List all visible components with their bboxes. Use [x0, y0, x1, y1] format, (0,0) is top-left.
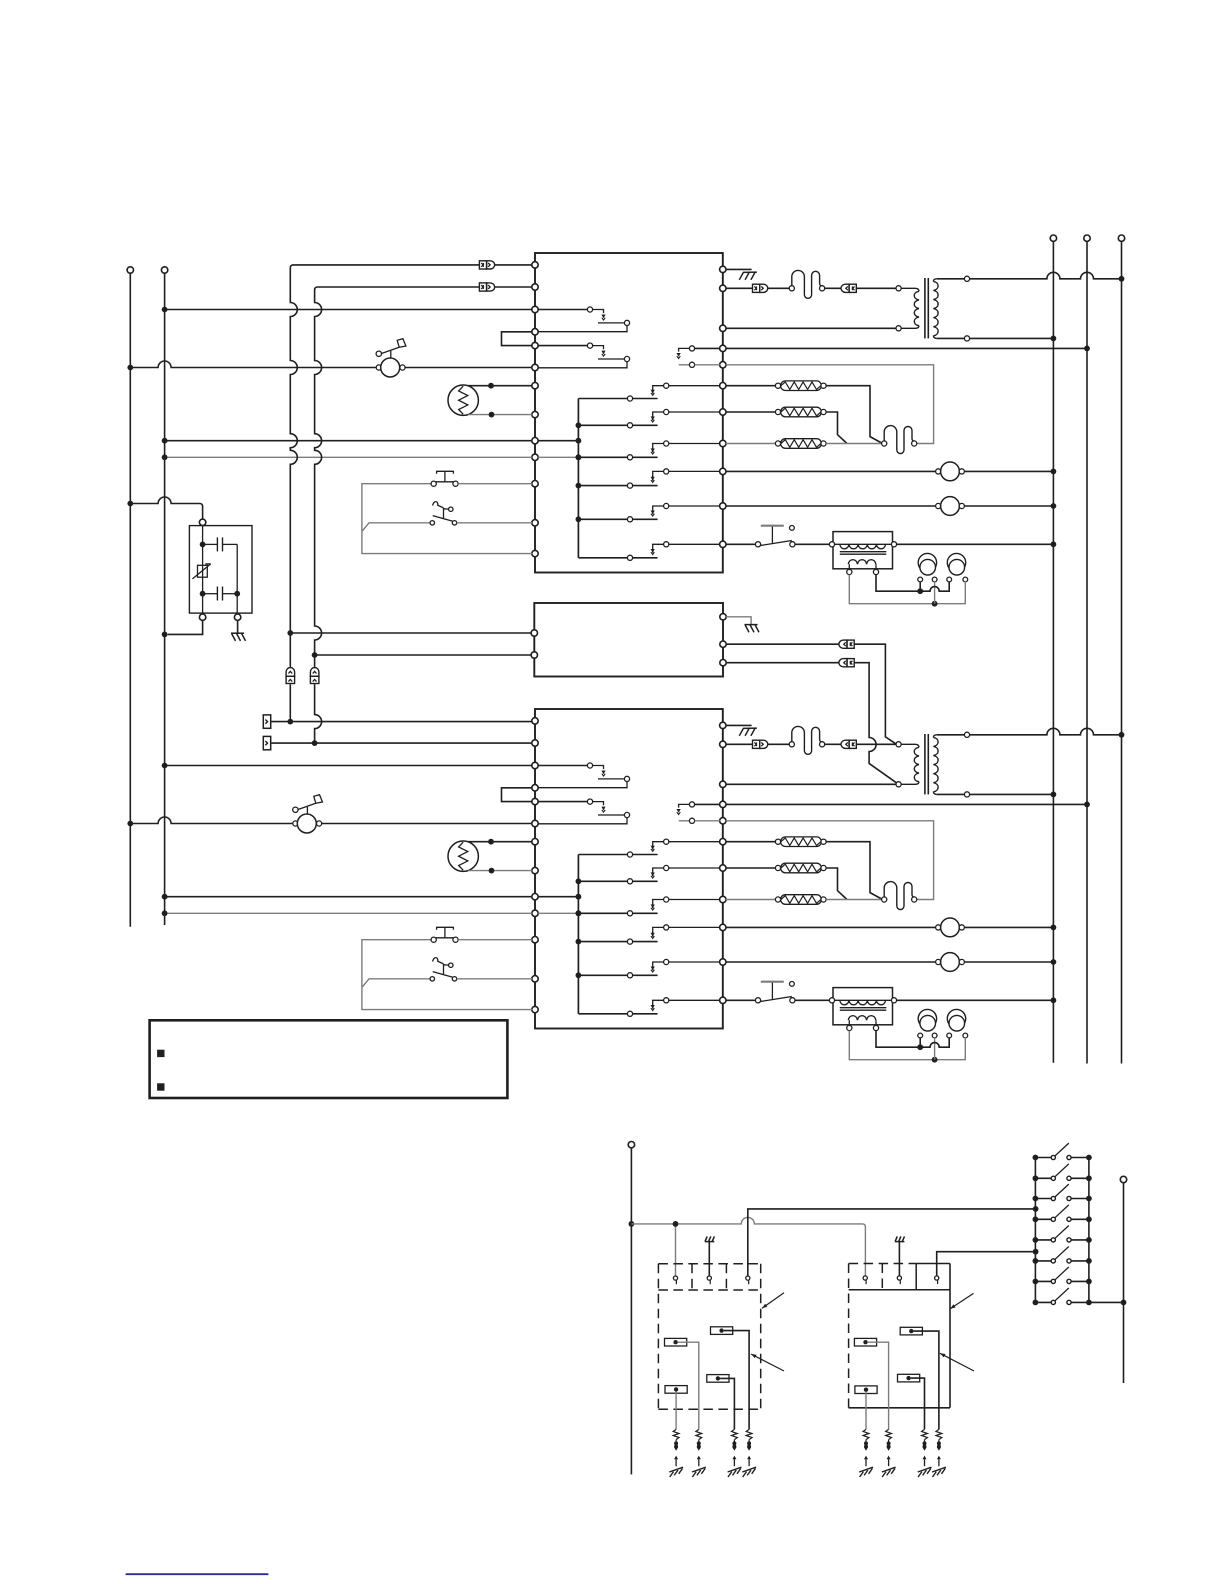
U2 right terminal pin 5: [720, 818, 726, 824]
junction secondary-bottom bus1 (U1): [1051, 336, 1057, 342]
thermistor TH1: [448, 385, 478, 415]
K5 junction on bus (U2): [576, 972, 582, 978]
capacitor C22: [947, 1009, 968, 1038]
DIP switch S6: [1033, 1247, 1092, 1264]
contactor coil box 52C1: [829, 532, 896, 575]
U3 wire to column1: [290, 632, 531, 634]
solenoid coil A-R2: [711, 1327, 733, 1335]
connector CN2 (male): [479, 283, 494, 291]
U2 left terminal pin 2: [532, 740, 538, 746]
heater H11: [726, 381, 826, 391]
fuse F11 right terminal: [820, 286, 825, 291]
junction L1 filter row: [127, 501, 133, 507]
solenoid coil B-C1: [900, 1327, 922, 1335]
filter output terminal: [199, 614, 205, 620]
coil A-R3 lead: [720, 1378, 734, 1429]
U1 cap gray junction: [932, 601, 938, 607]
U1 cap gray net: [849, 575, 965, 604]
relay contact K2 moving arm (U2): [578, 879, 657, 884]
wire to OL protector (U2): [130, 817, 292, 823]
relay contact K4 moving arm (U1): [578, 483, 657, 488]
connector CN2a (male): [753, 740, 768, 748]
pressure switch 63H1: [755, 526, 795, 547]
protection switch to PCB wire (U1): [457, 522, 532, 524]
T1 secondary bottom terminal: [964, 336, 969, 341]
heater row wire to fuse (U2): [826, 899, 882, 901]
fan motor M12: [726, 497, 1054, 516]
valve box A ground stem: [708, 1242, 710, 1276]
bottom right vertical: [1123, 1183, 1125, 1383]
U1 left terminal pin 11: [532, 481, 538, 487]
T2 secondary top wire to bus: [970, 728, 1122, 734]
U2 chassis ground stub: [726, 724, 752, 726]
U2 right terminal pin 3: [720, 781, 726, 787]
gray branch to valve box A: [675, 1224, 677, 1276]
wire CN6 to PCB U2: [272, 742, 533, 744]
solenoid coil A-R4: [665, 1386, 687, 1394]
U1 left terminal pin 8: [532, 411, 538, 417]
capacitor C11: [918, 553, 937, 582]
U1 right terminal pin 4: [720, 345, 726, 351]
U2 bank junction b: [576, 910, 582, 916]
valve A terminal 1: [673, 1276, 677, 1284]
ground symbol G6: [895, 1236, 905, 1241]
U2 bank feed wire a: [538, 896, 578, 898]
wire CN2 to column2: [315, 287, 480, 290]
TH2 top lead junction: [488, 839, 494, 845]
T2 secondary top terminal: [964, 732, 969, 737]
U1 coil-box row wire a: [726, 543, 756, 545]
U2 left terminal pin 12: [532, 976, 538, 982]
TH1 top lead junction: [488, 383, 494, 389]
T2 core: [925, 734, 928, 794]
spark electrode B3: [918, 1429, 932, 1477]
junction L2 row2c: [162, 910, 168, 916]
heater H22 output wire: [826, 868, 847, 900]
valve box B terminal wire (black): [937, 1252, 1036, 1276]
U2 left terminal pin 13: [532, 1006, 538, 1012]
relay contact K1 moving arm (U1): [578, 396, 657, 401]
signal box U3: [534, 603, 723, 677]
valve B terminal 2: [897, 1276, 901, 1284]
footer rule: [126, 1573, 269, 1575]
solenoid coil A-R1: [665, 1338, 687, 1346]
U3 left terminal 1: [531, 630, 537, 636]
bank output wire: [1089, 1301, 1124, 1303]
coil B-C3 lead: [911, 1378, 925, 1429]
U1 fuse-row wire c: [825, 287, 841, 289]
U2 left terminal pin 4: [532, 785, 538, 791]
junction column1 middle-box row: [287, 630, 293, 636]
junction control bus2 (U2): [1084, 802, 1090, 808]
relay contact C pole (U2): [677, 802, 720, 815]
spark electrode A4: [742, 1429, 756, 1477]
wire L2 to PCB pin9 (U2): [165, 896, 532, 898]
relay contact K2 fixed throw (U2): [651, 865, 720, 878]
junction column2 unit2 row: [312, 740, 318, 746]
valve B terminal 3: [935, 1276, 939, 1284]
U2 cap1 left stem: [919, 1038, 921, 1048]
T2 secondary bottom wire to bus: [970, 793, 1054, 795]
wire L2 to PCB pin10 (U1): [165, 456, 532, 458]
U1 bank feed wire a: [538, 440, 578, 442]
junction M11 bus1: [1051, 469, 1057, 475]
solenoid coil B-C3: [898, 1374, 920, 1382]
K2 junction on bus (U1): [576, 422, 582, 428]
note bullet 2: [157, 1083, 164, 1090]
signal column 2 (upper): [315, 290, 322, 667]
switch-group loop wire (U2): [362, 940, 532, 1010]
junction bank feed B: [1033, 1249, 1039, 1255]
protection switch to PCB wire (U2): [457, 978, 532, 980]
heater H12: [726, 407, 826, 417]
U2 wire pin to T2 primary: [726, 783, 896, 785]
heater fuse F22 right terminal: [912, 897, 917, 902]
bus R2: [1086, 241, 1088, 1063]
junction bank feed A: [1033, 1206, 1039, 1212]
connector CN5 (stub): [263, 715, 270, 728]
TH2 bottom lead: [468, 870, 532, 872]
relay contact K1 fixed throw (U1): [651, 383, 720, 395]
U1 chassis ground stub: [726, 268, 752, 270]
controller PCB U2: [535, 709, 723, 1029]
T1 core: [925, 278, 928, 338]
ground symbol G5: [705, 1236, 715, 1241]
valve B terminal 1: [863, 1276, 867, 1284]
protection switch (U1): [430, 502, 457, 525]
U2 left terminal pin 1: [532, 718, 538, 724]
U2 heater-fuse return wire: [726, 821, 934, 900]
switch-group loop wire (U1): [362, 484, 532, 554]
spark electrode B1: [859, 1429, 873, 1477]
coil A-R4 lead: [675, 1391, 677, 1429]
T2 secondary bottom terminal: [964, 792, 969, 797]
U2 fuse-row wire b: [768, 743, 789, 745]
U1 left terminal pin 12: [532, 520, 538, 526]
U1 contact-bank bus column: [577, 399, 579, 558]
relay contact K5 fixed throw (U1): [651, 503, 720, 516]
U2 right terminal pin 7: [720, 865, 726, 871]
relay contact K4 fixed throw (U1): [651, 469, 720, 483]
U1 right terminal pin 9: [720, 468, 726, 474]
U1 cap1 right stem: [934, 582, 936, 604]
U1 cap black junction: [917, 588, 923, 594]
relay contact K5 moving arm (U1): [578, 517, 657, 522]
connector CN1b (female): [841, 284, 856, 292]
capacitor C12: [947, 553, 968, 582]
spark electrode B2: [882, 1429, 896, 1477]
relay contact K3 moving arm (U2): [578, 911, 657, 916]
coil B-C4 lead: [865, 1392, 867, 1430]
relay contact C throw (U1): [679, 362, 720, 367]
valve A terminal 2: [707, 1276, 711, 1284]
U1 bank feed wire b: [538, 456, 578, 458]
U3 right terminal 3: [720, 660, 726, 666]
note bullet 1: [157, 1050, 164, 1057]
U1 left terminal pin 2: [532, 284, 538, 290]
filter right bus: [236, 544, 238, 613]
T2 primary coil: [901, 744, 919, 784]
U1 cap black net: [876, 575, 949, 592]
TH1 top lead: [468, 385, 532, 387]
fan motor M11: [726, 462, 1054, 481]
switch bank left bus: [1034, 1158, 1036, 1303]
U3 right terminal 2: [720, 641, 726, 647]
spark electrode A3: [728, 1429, 742, 1477]
transformer T1 primary top terminal: [896, 286, 901, 291]
bottom right terminal: [1120, 1176, 1126, 1182]
K3 junction on bus (U1): [576, 454, 582, 460]
junction M12 bus1: [1051, 503, 1057, 509]
U3 ground wire: [726, 617, 751, 624]
OL protector 49C (U2): [293, 795, 323, 833]
U1 fuse-row wire d: [857, 287, 897, 289]
relay contact K1 moving arm (U2): [578, 852, 657, 857]
filter junction c: [234, 591, 240, 597]
pushbutton to PCB wire (U1): [458, 483, 532, 485]
U1 right terminal pin 2: [720, 285, 726, 291]
connector CN7 (female): [839, 640, 854, 648]
valve A terminal 3: [746, 1276, 750, 1284]
junction coil-row bus1 (U2): [1051, 997, 1057, 1003]
spark electrode A1: [669, 1429, 683, 1477]
bottom feed terminal: [628, 1142, 634, 1148]
DIP switch S3: [1033, 1184, 1092, 1201]
power terminal L1: [127, 267, 133, 273]
U3 wire row2 to T2: [854, 644, 896, 744]
U1 left terminal pin 5: [532, 342, 538, 348]
U1 cap1 left stem: [919, 582, 921, 592]
protection switch (U2): [430, 958, 457, 981]
wire OL to PCB (U1): [405, 367, 532, 369]
connector CN1a (male): [753, 284, 768, 292]
U1 right terminal pin 3: [720, 325, 726, 331]
leader arrow A1: [762, 1293, 784, 1308]
U1 right terminal pin 10: [720, 503, 726, 509]
junction M21 bus1: [1051, 925, 1057, 931]
relay contact K6 moving arm (U1): [578, 555, 657, 560]
U1 bank junction b: [576, 454, 582, 460]
bank output junction: [1121, 1300, 1127, 1306]
connector CN2b (female): [841, 740, 856, 748]
DIP switch S8: [1033, 1288, 1092, 1305]
wire L1 to filter: [130, 497, 202, 519]
ground symbol G4: [231, 633, 246, 641]
K3 junction on bus (U2): [576, 910, 582, 916]
junction L2 row1b: [162, 438, 168, 444]
fuse F11: [792, 270, 822, 298]
U1 left terminal pin 1: [532, 262, 538, 268]
power terminal L2: [161, 267, 167, 273]
junction secondary-bottom bus1 (U2): [1051, 792, 1057, 798]
U2 coil-box row wire b: [795, 999, 829, 1001]
U2 right terminal pin 8: [720, 896, 726, 902]
U3 left terminal 2: [531, 652, 537, 658]
heater H12 output wire: [826, 412, 847, 444]
relay contact B (U1): [538, 343, 630, 368]
U1 left terminal pin 3: [532, 306, 538, 312]
wire L1 vertical: [129, 273, 131, 927]
junction L1 row1a: [127, 365, 133, 371]
fuse F21: [792, 726, 822, 754]
solenoid coil B-C4: [855, 1386, 877, 1394]
relay contact K4 fixed throw (U2): [651, 925, 720, 939]
coil B-C1 lead: [914, 1331, 939, 1429]
transformer T2 primary top terminal: [896, 742, 901, 747]
U1 right terminal pin 1: [720, 266, 726, 272]
T2 primary bottom terminal: [896, 782, 901, 787]
U2 cap1 right stem: [934, 1038, 936, 1060]
TH2 top lead: [468, 841, 532, 843]
note box: [150, 1020, 508, 1098]
heater H13: [726, 439, 826, 449]
ground symbol G2a: [739, 728, 757, 736]
U1 right terminal pin 8: [720, 440, 726, 446]
T1 secondary coil: [933, 279, 938, 339]
wire L2 to PCB pin9 (U1): [165, 440, 532, 442]
junction L2 row2a: [162, 763, 168, 769]
connector CN3 (inline, column1): [286, 668, 295, 684]
junction control bus2 (U1): [1084, 346, 1090, 352]
U2 cap gray junction: [932, 1057, 938, 1063]
junction L2 row1c: [162, 454, 168, 460]
solenoid coil B-C2: [854, 1338, 876, 1346]
U1 fuse-row wire b: [768, 287, 789, 289]
heater H21 output wire: [826, 842, 883, 900]
noise filter box Z1: [189, 526, 252, 614]
U2 right terminal pin 6: [720, 839, 726, 845]
T1 secondary top wire to bus: [970, 272, 1122, 279]
bottom feed junction: [629, 1221, 635, 1227]
gas valve unit B (box): [849, 1264, 950, 1408]
U1 right terminal pin 6: [720, 383, 726, 389]
junction M22 bus1: [1051, 959, 1057, 965]
DIP switch S4: [1033, 1205, 1092, 1222]
thermistor TH2: [448, 841, 478, 871]
TH2 bottom lead junction: [489, 868, 495, 874]
signal column 1 (lower): [289, 684, 291, 721]
bus R1: [1052, 241, 1054, 1062]
wire L2 to PCB pin10 (U2): [165, 912, 532, 914]
T1 primary bottom terminal: [896, 326, 901, 331]
U2 right terminal pin 4: [720, 801, 726, 807]
U2 fuse-row wire d: [857, 743, 897, 745]
U2 left terminal pin 3: [532, 762, 538, 768]
U3 wire row2 a: [726, 643, 838, 645]
relay contact A (U1): [538, 307, 630, 332]
junction column1 unit2 row: [287, 719, 293, 725]
U3 wire row3 a: [726, 662, 838, 664]
U1 left terminal pin 7: [532, 383, 538, 389]
varistor ZNR: [192, 564, 210, 579]
connector CN6 (stub): [263, 736, 270, 749]
filter cap Ca: [204, 537, 237, 551]
U2 left terminal pin 7: [532, 839, 538, 845]
filter input terminal: [199, 519, 205, 525]
connector CN1 (male): [479, 261, 494, 269]
U2 contact-bank bus column: [577, 855, 579, 1014]
U1 left terminal pin 9: [532, 438, 538, 444]
U2 right terminal pin 2: [720, 741, 726, 747]
junction L1 row2a: [127, 821, 133, 827]
DIP switch S2: [1033, 1164, 1092, 1181]
U2 cap black net: [876, 1031, 949, 1048]
U2 right terminal pin 11: [720, 997, 726, 1003]
heater fuse F22: [884, 882, 914, 910]
U2 coil-box row wire to bus: [897, 999, 1054, 1001]
bottom feed vertical: [630, 1148, 632, 1475]
K4 junction on bus (U1): [576, 483, 582, 489]
leader arrow A2: [751, 1354, 784, 1371]
spark electrode A2: [692, 1429, 706, 1477]
heater fuse F22 left terminal: [882, 897, 887, 902]
U1 coil-box row wire b: [795, 543, 829, 545]
relay contact K5 fixed throw (U2): [651, 959, 720, 972]
wire CN1 to column1: [290, 265, 479, 268]
U2 bank junction a: [576, 894, 582, 900]
U1 left terminal pin 10: [532, 454, 538, 460]
T1 primary coil: [901, 288, 919, 328]
capacitor C21: [918, 1009, 937, 1038]
relay contact K3 moving arm (U1): [578, 455, 657, 460]
connector CN8 (female): [839, 659, 854, 667]
T2 secondary top wire: [937, 734, 965, 736]
leader arrow B2: [940, 1353, 974, 1371]
fuse F21 left terminal: [789, 742, 794, 747]
ground symbol G3: [745, 625, 760, 633]
contactor coil box 52C2: [829, 988, 896, 1031]
relay contact K6 moving arm (U2): [578, 1011, 657, 1016]
junction secondary-top bus3 (U2): [1119, 732, 1125, 738]
wire CN5 to PCB U2: [272, 721, 533, 723]
heater row wire to fuse (U1): [826, 443, 882, 445]
relay contact K6 fixed throw (U2): [651, 998, 720, 1011]
bus R2 terminal: [1084, 235, 1090, 241]
bus R1 terminal: [1050, 235, 1056, 241]
connector CN4 (inline, column2): [310, 668, 319, 684]
gas valve unit A (dashed box): [658, 1264, 760, 1410]
heater H23: [726, 895, 826, 905]
leader arrow B1: [950, 1293, 973, 1308]
U2 left terminal pin 10: [532, 910, 538, 916]
spark electrode B4: [932, 1429, 946, 1477]
U3 right terminal 1: [720, 614, 726, 620]
filter junction b: [200, 591, 206, 597]
K2 junction on bus (U2): [576, 878, 582, 884]
relay contact A (U2): [538, 763, 630, 788]
relay contact K3 fixed throw (U1): [651, 441, 720, 454]
junction secondary-top bus3 (U1): [1119, 276, 1125, 282]
fuse F11 left terminal: [789, 286, 794, 291]
coil A-R1 lead: [678, 1342, 699, 1429]
pushbutton switch (U1): [431, 471, 458, 486]
U2 left terminal pin 9: [532, 894, 538, 900]
filter junction a: [200, 542, 206, 548]
bus R3 terminal: [1118, 235, 1124, 241]
heater fuse F12: [884, 426, 914, 454]
U1 fuse-row wire a: [726, 287, 753, 289]
wire CN1 row: [495, 264, 532, 266]
wire L2 to PCB pin3 (U1): [165, 309, 532, 311]
switch bank right bus: [1088, 1158, 1090, 1303]
fuse F21 right terminal: [820, 742, 825, 747]
U1 wire pin to T1 primary: [726, 327, 896, 329]
T2 secondary coil: [933, 735, 938, 795]
relay contact K2 moving arm (U1): [578, 423, 657, 428]
U2 link strap (pins 4-5): [502, 788, 533, 802]
valve box A terminal wire (black): [748, 1209, 1036, 1276]
U2 right terminal pin 1: [720, 722, 726, 728]
